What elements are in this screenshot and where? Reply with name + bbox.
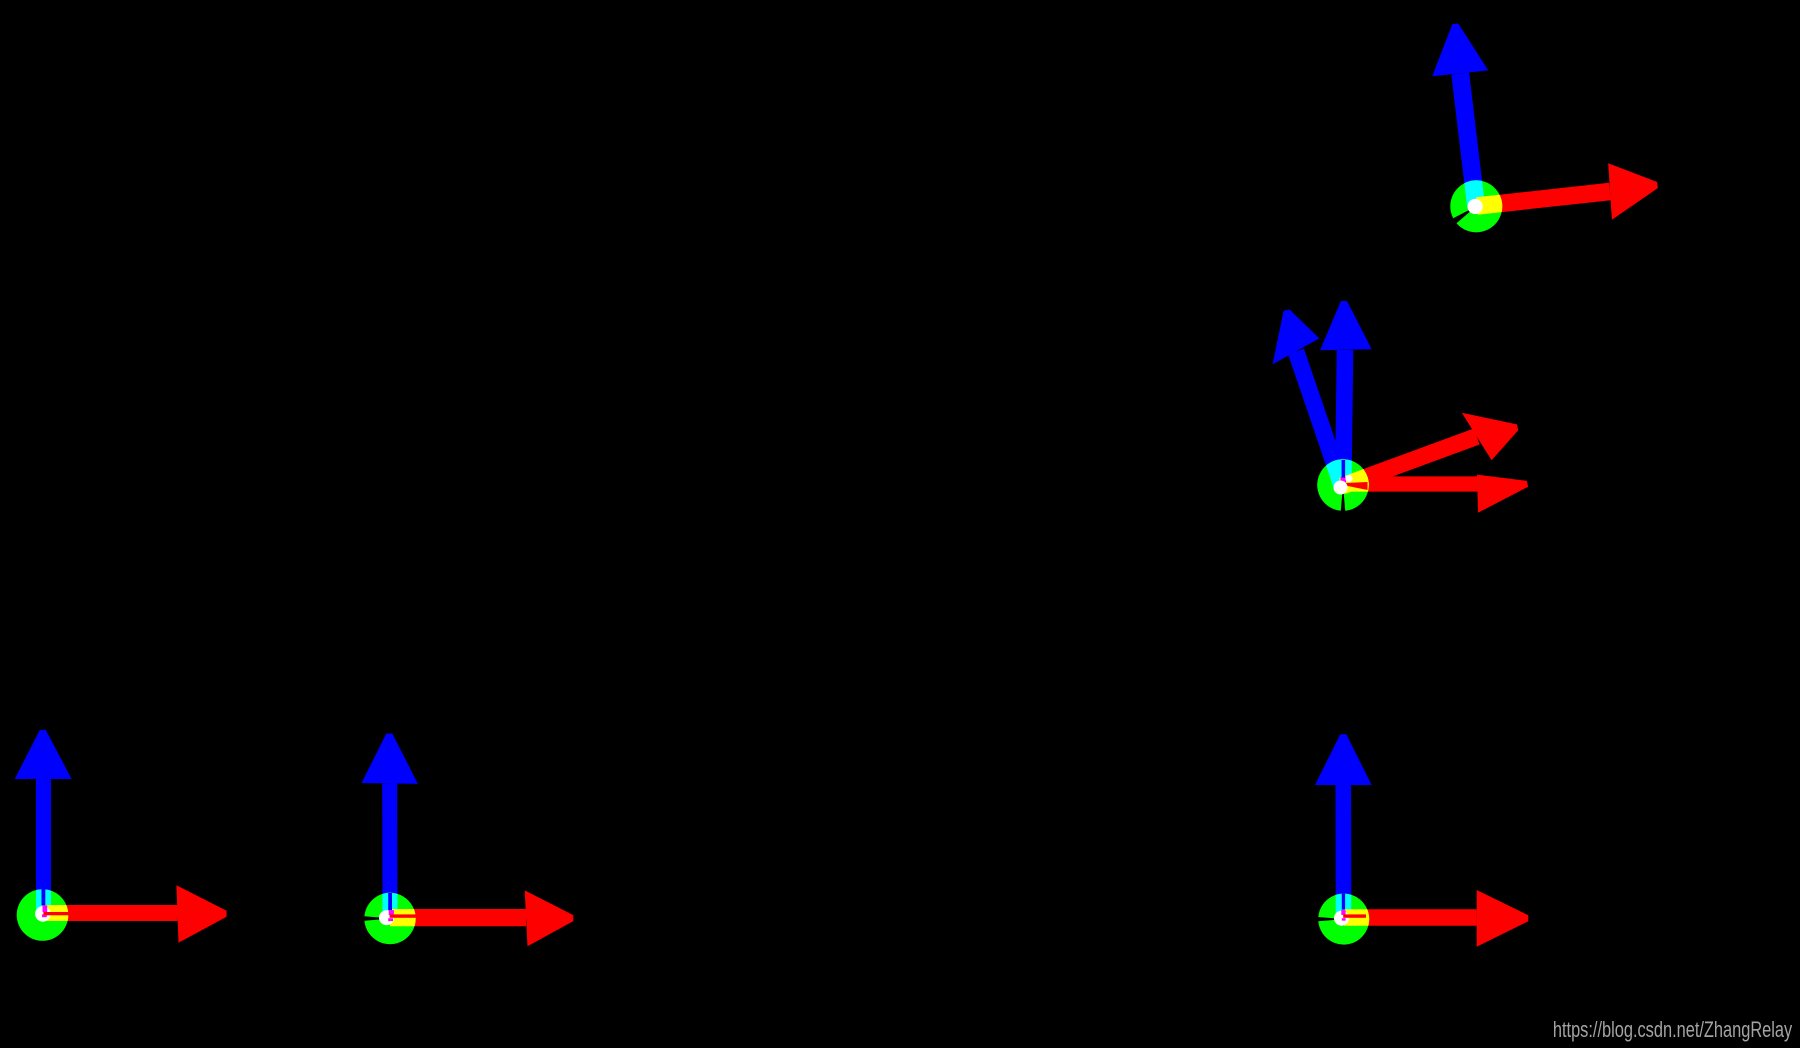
frame E red x-axis arrow: [390, 909, 526, 926]
svg-text:https://blog.csdn.net/ZhangRel: https://blog.csdn.net/ZhangRelay: [1553, 1018, 1793, 1043]
frame F blue z-axis arrow: [1336, 785, 1352, 919]
frame A yellow overlap (red shaft over disc): [1476, 183, 1611, 215]
frame D red x-axis arrow: [43, 905, 178, 921]
frame B pure blue shaft stripe: [1342, 460, 1346, 478]
frame C tilted red x-axis arrow: [1339, 429, 1480, 495]
frame F pure blue shaft stripe: [1342, 894, 1345, 910]
frame D magenta overlap patches: [43, 905, 48, 912]
frame C white origin dot: [1345, 475, 1352, 482]
frame F magenta overlap patches: [1341, 910, 1345, 915]
frame B yellow overlap (straight red shaft over disc): [1343, 476, 1478, 491]
frame D pure red shaft stripe: [43, 912, 69, 915]
frame A cyan overlap (blue shaft over disc): [1451, 72, 1611, 214]
frame C tilted blue z-axis arrow: [1288, 349, 1350, 489]
frame B straight red x-axis arrow: [1343, 476, 1478, 491]
frame D green y-axis disc (origin): [17, 889, 69, 941]
frame F yellow overlap (red shaft over disc): [1344, 909, 1477, 926]
frame D cyan overlap (blue shaft over disc): [36, 779, 51, 914]
frame B cyan overlap (straight blue shaft over disc): [1335, 350, 1353, 485]
frame E yellow overlap (red shaft over disc): [390, 909, 526, 926]
frame F cyan overlap (blue shaft over disc): [1336, 785, 1352, 919]
frame D blue z-axis arrow: [36, 779, 51, 914]
frame F white origin dot: [1334, 911, 1349, 926]
frame F green y-axis disc (origin): [1318, 894, 1369, 945]
frame D white origin dot: [35, 906, 51, 922]
frame C cyan overlap (tilted blue shaft over disc): [1288, 349, 1350, 489]
frame D yellow overlap (red shaft over disc): [43, 905, 178, 921]
frames B/C shared green y-axis disc (origin): [1317, 459, 1369, 511]
frame E magenta overlap patches: [389, 910, 394, 915]
frame E cyan overlap (blue shaft over disc): [382, 784, 397, 919]
frame E blue z-axis arrow: [382, 784, 397, 919]
frame A blue z-axis arrow: [1451, 72, 1485, 206]
frames B/C red overlap wedge (both red shafts over disc): [1346, 482, 1368, 490]
frames B/C magenta overlap patch: [1341, 477, 1347, 484]
frame A white origin dot: [1468, 199, 1483, 214]
frame E green y-axis disc (origin): [364, 893, 415, 944]
frame A red x-axis arrow: [1476, 183, 1611, 215]
frame D pure blue shaft stripe: [42, 889, 46, 905]
frame F pure red shaft stripe: [1343, 914, 1366, 917]
frame B straight blue z-axis arrow: [1335, 350, 1353, 485]
frame E white origin dot: [379, 910, 394, 925]
frame C yellow overlap (tilted red shaft over disc): [1339, 429, 1480, 495]
frame F red x-axis arrow: [1344, 909, 1477, 926]
frame A green y-axis disc (origin): [1450, 180, 1502, 232]
frame B white origin dot: [1334, 481, 1348, 495]
frame E pure blue shaft stripe: [388, 893, 392, 910]
frame E pure red shaft stripe: [390, 914, 418, 917]
